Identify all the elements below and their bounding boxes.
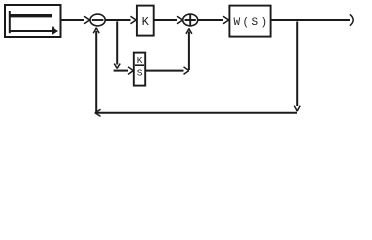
fraction bar bbox=[135, 64, 144, 66]
wire corner to integrator bbox=[114, 70, 128, 72]
summing junction S1 (minus) bbox=[90, 14, 105, 26]
output wire with node B bbox=[271, 19, 350, 21]
feedback drop from node B bbox=[296, 22, 298, 107]
arrowhead down at bottom bbox=[294, 106, 300, 112]
wire sum1 to K with branch node A bbox=[105, 19, 130, 21]
arrowhead into sum1 bbox=[84, 16, 90, 24]
step axis vertical bbox=[9, 11, 11, 33]
feedback riser up into sum1 bbox=[95, 31, 97, 113]
wire source to sum1 bbox=[61, 19, 85, 21]
svg-text:W(S): W(S) bbox=[234, 17, 270, 29]
arrowhead into integrator bbox=[128, 67, 133, 75]
source block X1 (step input) bbox=[5, 5, 61, 37]
branch wire node A down to integrator bbox=[116, 21, 118, 64]
arrowhead right at corner bbox=[184, 67, 189, 75]
arrowhead into W(S) bbox=[223, 16, 229, 24]
arrowhead up into sum2 bbox=[186, 28, 192, 33]
riser up into sum2 bbox=[188, 32, 190, 71]
arrowhead into K bbox=[131, 16, 137, 24]
summing junction S2 (plus) bbox=[183, 14, 198, 26]
integrator block K/S bbox=[134, 53, 145, 86]
arrowhead down at corner bbox=[114, 64, 120, 69]
step axis horizontal with arrow bbox=[10, 30, 53, 32]
svg-text:K: K bbox=[142, 15, 150, 29]
feedback bottom wire bbox=[96, 112, 297, 114]
wire integrator to riser corner bbox=[145, 70, 183, 72]
svg-text:S: S bbox=[137, 68, 143, 79]
gain block K bbox=[137, 6, 154, 36]
plant block W(S) bbox=[229, 6, 270, 37]
wire sum2 to W(S) bbox=[198, 19, 223, 21]
arrowhead into sum2 bbox=[177, 16, 183, 24]
wire K to sum2 bbox=[154, 19, 177, 21]
arrowhead up into sum1 bbox=[93, 28, 99, 34]
output arrowhead bbox=[350, 14, 353, 25]
step level thick line bbox=[9, 14, 52, 17]
svg-text:K: K bbox=[137, 55, 143, 66]
minus sign bbox=[92, 19, 104, 21]
plus sign bbox=[185, 14, 196, 25]
arrowhead left at bottom corner bbox=[95, 109, 101, 116]
